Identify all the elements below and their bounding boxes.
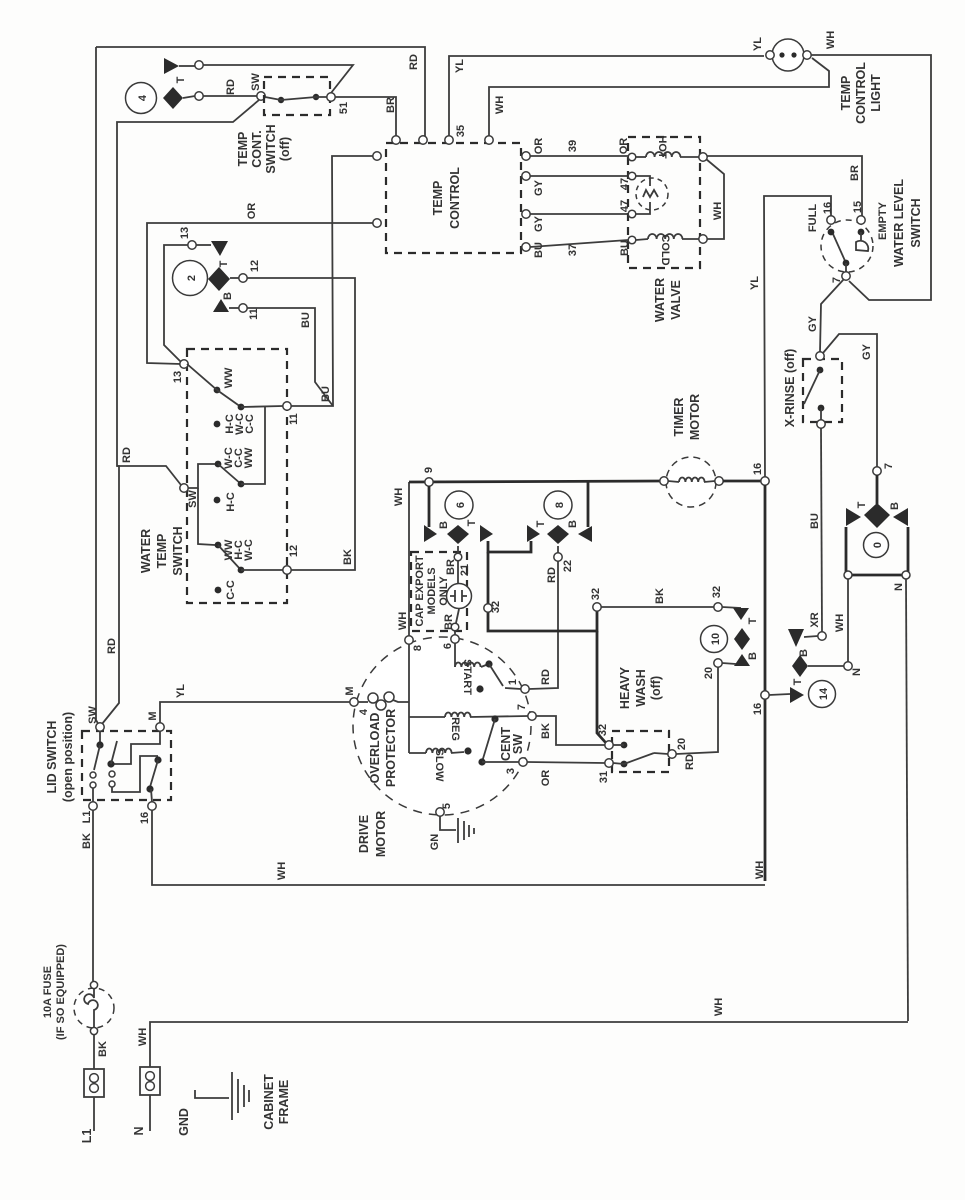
svg-text:14: 14 [818, 687, 830, 700]
node terminal 32 left [484, 601, 502, 613]
svg-text:TIMER: TIMER [672, 398, 686, 437]
label CAP EXPORT MODELS ONLY [414, 555, 450, 627]
wire BK bus 32 to heavy wash area [601, 588, 714, 607]
connector diamond (block 0) [856, 501, 901, 528]
connector half (13) [196, 241, 228, 256]
svg-text:37: 37 [567, 244, 579, 256]
svg-text:MOTOR: MOTOR [688, 394, 702, 440]
svg-text:2: 2 [186, 275, 198, 281]
label WATER TEMP SWITCH [139, 526, 185, 575]
connector diamond (item 10) [734, 628, 750, 650]
label WATER VALVE [653, 278, 683, 322]
node YL label at lamp [752, 37, 764, 51]
wire left border BK (L1 feed) [96, 47, 100, 727]
svg-text:31: 31 [598, 771, 610, 783]
svg-text:T: T [175, 76, 187, 83]
ground GND [177, 1072, 249, 1136]
svg-text:CONT.: CONT. [250, 130, 264, 168]
svg-text:BK: BK [81, 833, 93, 849]
svg-text:BR: BR [445, 559, 457, 575]
svg-text:22: 22 [562, 560, 574, 572]
svg-text:(IF SO EQUIPPED): (IF SO EQUIPPED) [55, 944, 67, 1040]
coil SLOW [409, 747, 472, 782]
svg-text:VALVE: VALVE [669, 280, 683, 320]
wire OR temp control to water valve [530, 155, 628, 157]
node terminal SW water temp switch [180, 484, 199, 508]
node terminal BR on temp control top [392, 136, 400, 144]
svg-text:WH: WH [393, 488, 405, 506]
connector half T (item 10) [722, 607, 759, 624]
switch contact WW [187, 364, 244, 410]
node terminal 12 (item 2) [230, 260, 261, 282]
node terminal of diamond 4 [183, 92, 203, 100]
node YL label [454, 59, 466, 73]
connector half left (block 0) [846, 508, 861, 526]
node terminal 32 heavy wash [597, 724, 613, 749]
svg-text:RD: RD [546, 567, 558, 583]
svg-text:W-C: W-C [243, 539, 255, 561]
svg-text:PROTECTOR: PROTECTOR [384, 709, 398, 787]
node terminal OR temp control right [522, 152, 530, 160]
node WH label at lamp [825, 31, 837, 49]
node terminal 6 drive motor [442, 635, 459, 649]
svg-text:16: 16 [752, 463, 764, 475]
svg-text:GY: GY [533, 215, 545, 232]
svg-text:11: 11 [288, 413, 300, 425]
overload protector squiggle [358, 692, 409, 710]
node terminal 31 heavy wash [598, 759, 613, 783]
svg-text:FRAME: FRAME [277, 1080, 291, 1124]
svg-text:RD: RD [408, 54, 420, 70]
node terminal 32 mid [590, 588, 602, 611]
wire contact3 to terminal 12 [241, 569, 283, 571]
svg-text:B: B [438, 521, 450, 529]
svg-text:T: T [535, 520, 547, 527]
svg-text:T: T [792, 678, 804, 685]
svg-text:WH: WH [276, 862, 288, 880]
node terminal SW of temp cont switch [257, 92, 265, 100]
svg-text:6: 6 [455, 502, 467, 508]
svg-text:5: 5 [441, 803, 453, 809]
node RD label [225, 79, 237, 95]
svg-text:GN: GN [429, 834, 441, 851]
node terminal T of item 4 [195, 61, 203, 69]
node terminal 15 empty [852, 201, 865, 224]
switch contact W-C C-C WW [215, 447, 255, 487]
node terminal 1 drive motor [507, 669, 552, 693]
connector half B (item 14) [788, 629, 818, 657]
label TEMP CONT. SWITCH (off) [236, 124, 292, 173]
connector half B (item 10) [722, 652, 759, 666]
svg-text:YL: YL [454, 59, 466, 73]
wire YL lid M to drive motor M [160, 684, 350, 723]
svg-text:WH: WH [834, 614, 846, 632]
node terminal valve HOT right [699, 153, 707, 161]
connector diamond (item 2) [208, 267, 230, 291]
svg-text:GY: GY [807, 315, 819, 332]
svg-text:CABINET: CABINET [262, 1074, 276, 1130]
label TEMP CONTROL LIGHT [839, 62, 883, 124]
svg-text:10A FUSE: 10A FUSE [42, 966, 54, 1018]
svg-text:15: 15 [852, 201, 864, 213]
svg-text:(off): (off) [278, 137, 292, 161]
svg-text:47: 47 [619, 200, 631, 212]
switch water level contacts [828, 229, 869, 272]
connector diamond T (item 6) [447, 519, 478, 553]
node terminal M/4 drive motor [344, 686, 370, 715]
svg-text:YL: YL [752, 37, 764, 51]
node RD label mid-left [121, 447, 133, 463]
wire 16 vertical down [764, 485, 767, 881]
switch lid pole 1 [90, 731, 104, 802]
lamp TEMP CONTROL LIGHT [766, 39, 811, 71]
connector diamond (item 4) [163, 87, 183, 109]
svg-text:6: 6 [442, 643, 454, 649]
svg-text:(open position): (open position) [61, 712, 75, 802]
svg-text:39: 39 [567, 140, 579, 152]
svg-text:X-RINSE (off): X-RINSE (off) [783, 349, 797, 427]
connector half T (top of item 4) [164, 58, 195, 74]
svg-text:SW: SW [250, 73, 262, 91]
svg-text:REG: REG [449, 717, 461, 741]
svg-text:BK: BK [97, 1041, 109, 1057]
coil START [455, 643, 486, 695]
label WATER LEVEL SWITCH [892, 179, 923, 267]
svg-text:GY: GY [861, 343, 873, 360]
svg-text:CONTROL: CONTROL [448, 167, 462, 229]
svg-text:1: 1 [507, 679, 519, 685]
switch TEMP CONT SWITCH dashed box [264, 77, 330, 115]
svg-text:BU: BU [809, 513, 821, 529]
node terminal M lid switch [147, 711, 164, 731]
svg-text:H-C: H-C [225, 492, 237, 512]
svg-text:32: 32 [711, 586, 723, 598]
coil REG [409, 713, 528, 741]
svg-text:C-C: C-C [244, 414, 256, 434]
wire BK motor 7 to heavy wash 32 [536, 716, 605, 745]
svg-text:TEMP: TEMP [236, 132, 250, 167]
node terminal 20 (item 10) [703, 659, 722, 679]
node T label (item 4) [175, 76, 187, 83]
node dot H-C [214, 492, 237, 512]
label TIMER MOTOR [672, 394, 702, 440]
coil HOT [636, 135, 699, 159]
svg-text:HOT: HOT [656, 135, 668, 159]
wire BK 12 to water temp switch 12 [247, 278, 355, 570]
switch heavy wash [613, 742, 668, 768]
node terminal temp control left 1 [373, 152, 381, 160]
connector half T (item 8) [527, 520, 547, 542]
node RD label top [408, 54, 420, 70]
svg-text:MOTOR: MOTOR [374, 811, 388, 857]
switch contact WW H-C W-C [215, 539, 255, 573]
svg-text:TEMP: TEMP [431, 181, 445, 216]
svg-text:0: 0 [872, 542, 884, 548]
svg-text:32: 32 [597, 724, 609, 736]
wire WH motor 8 up to bus [408, 482, 410, 636]
svg-text:WH: WH [397, 612, 409, 630]
svg-text:EMPTY: EMPTY [877, 201, 889, 240]
wire diamond 14 to N [808, 665, 844, 667]
component LID SWITCH dashed box [82, 731, 171, 800]
component DRIVE MOTOR dashed circle [353, 637, 531, 815]
svg-text:35: 35 [455, 125, 467, 137]
node terminal N (item 14) [844, 662, 863, 676]
wire temp control left 1 to water temp switch 11 [291, 156, 373, 406]
svg-text:LID SWITCH: LID SWITCH [45, 721, 59, 794]
svg-text:16: 16 [822, 202, 834, 214]
node dot H-C W-C C-C [214, 413, 256, 435]
component WATER LEVEL SWITCH dashed circle [821, 220, 873, 272]
node terminal 5 drive motor [436, 803, 453, 816]
svg-text:BU: BU [300, 312, 312, 328]
node terminal XR [809, 612, 826, 640]
node terminal RD on temp control top [419, 136, 427, 144]
wire YL water level 16 to timer junction [749, 196, 831, 481]
svg-text:L1: L1 [81, 811, 93, 824]
wire 20 down to heavy wash [676, 667, 718, 754]
svg-text:32: 32 [590, 588, 602, 600]
item circle 8 [544, 491, 572, 519]
svg-text:9: 9 [423, 467, 435, 473]
wire BK lid L1 to fuse [81, 810, 93, 981]
svg-text:13: 13 [172, 371, 184, 383]
connector diamond (item 14) [792, 655, 808, 677]
terminal block N [132, 1067, 160, 1136]
component WATER VALVE dashed box [628, 137, 700, 268]
wire motor internal bus [408, 644, 410, 753]
wire thick item8 left link [488, 541, 531, 552]
svg-text:WH: WH [713, 998, 725, 1016]
component CAP EXPORT MODELS ONLY dashed box [411, 552, 467, 631]
node terminal 11 (item 2) [239, 304, 260, 320]
node terminal 7 block 0 [873, 463, 895, 475]
component TEMP CONTROL dashed box [386, 143, 521, 253]
node terminal 16 full [822, 202, 835, 224]
svg-text:32: 32 [490, 601, 502, 613]
wire from T terminal to switch terminal 51 [203, 65, 353, 93]
wire 9 down to connector B of item 6 [428, 486, 431, 527]
svg-text:BK: BK [540, 723, 552, 739]
svg-text:DRIVE: DRIVE [357, 815, 371, 853]
wire RD branch down to lid switch [102, 466, 119, 724]
svg-text:RD: RD [121, 447, 133, 463]
svg-text:51: 51 [338, 102, 350, 114]
node terminal 51 [327, 93, 350, 114]
wire BU x-rinse to XR [809, 428, 822, 632]
node B label (item 2) [222, 292, 234, 300]
svg-text:WATER LEVEL: WATER LEVEL [892, 179, 906, 267]
svg-text:T: T [747, 617, 759, 624]
svg-text:21: 21 [459, 564, 471, 576]
connector diamond (item 8) [547, 520, 579, 553]
wire top border RD [96, 47, 425, 139]
switch start contact [476, 660, 521, 692]
svg-text:N: N [893, 583, 905, 591]
wire 7 to diamond block 0 [876, 475, 879, 504]
svg-text:RD: RD [684, 754, 696, 770]
wire RD from diamond4 to SW [203, 95, 257, 97]
node terminal x-rinse bottom [817, 420, 825, 428]
wire YL from temp control to lamp [449, 56, 764, 136]
node T label (item 2) [218, 260, 230, 267]
label HEAVY WASH (off) [618, 666, 663, 709]
node RD label lower-left [106, 638, 118, 654]
svg-text:BK: BK [654, 588, 666, 604]
svg-text:12: 12 [249, 260, 261, 272]
svg-text:LIGHT: LIGHT [869, 74, 883, 112]
node terminal 21 capacitor [445, 553, 471, 583]
node terminal 32 right [711, 586, 723, 611]
label FULL EMPTY [807, 201, 889, 240]
svg-text:TEMP: TEMP [839, 76, 853, 111]
svg-text:8: 8 [412, 645, 424, 651]
label OVERLOAD PROTECTOR [368, 709, 398, 787]
wire OR temp control left to water temp switch 13 [147, 223, 373, 364]
node terminal block0 bottom-right [893, 571, 910, 591]
svg-text:WH: WH [137, 1028, 149, 1046]
svg-text:B: B [222, 292, 234, 300]
svg-text:T: T [856, 501, 868, 508]
node terminal WH on temp control top [485, 136, 493, 144]
wire WH from temp control to lamp right [489, 58, 829, 136]
connector half T (item 14) [790, 678, 804, 703]
label 10A FUSE (IF SO EQUIPPED) [42, 944, 67, 1040]
node terminal 20 heavy wash [668, 738, 696, 770]
svg-text:WATER: WATER [139, 529, 153, 573]
wire timer to 16 junction [723, 480, 761, 483]
wire BK fuse to L1 terminal box [94, 1035, 109, 1069]
node BR label [385, 97, 397, 113]
wire GY 47 upper [522, 172, 631, 196]
node terminal L1 lid switch [81, 802, 97, 824]
svg-text:MODELS: MODELS [426, 567, 438, 614]
svg-text:SW: SW [511, 734, 525, 754]
svg-text:BK: BK [342, 549, 354, 565]
svg-text:CAP EXPORT: CAP EXPORT [414, 555, 426, 627]
ground at motor 5 [429, 816, 474, 850]
wire WH N to block 0 [834, 579, 848, 662]
svg-text:N: N [851, 668, 863, 676]
svg-text:COLD: COLD [659, 234, 671, 265]
svg-text:YL: YL [749, 276, 761, 290]
item circle 0 [864, 533, 889, 558]
svg-text:CONTROL: CONTROL [854, 62, 868, 124]
node terminal 16 stub to item 14 [752, 691, 790, 715]
svg-text:TEMP: TEMP [155, 534, 169, 569]
svg-text:FULL: FULL [807, 204, 819, 232]
svg-text:C-C: C-C [225, 580, 237, 600]
svg-text:7: 7 [883, 463, 895, 469]
svg-text:SWITCH: SWITCH [264, 124, 278, 173]
wire BU 37 [522, 240, 631, 258]
wire OR motor 3 to heavy wash 31 [527, 762, 605, 763]
svg-text:WATER: WATER [653, 278, 667, 322]
terminal block L1 [80, 1069, 104, 1143]
component HEAVY WASH dashed box [612, 731, 669, 772]
svg-text:8: 8 [554, 502, 566, 508]
wire WH block0 down right side [906, 579, 908, 1021]
svg-text:XR: XR [809, 612, 821, 627]
svg-text:OVERLOAD: OVERLOAD [368, 713, 382, 784]
node terminal YL (35) on temp control top [445, 125, 467, 144]
svg-text:(off): (off) [649, 676, 663, 700]
svg-text:OR: OR [246, 203, 258, 220]
svg-text:SLOW: SLOW [433, 749, 445, 783]
wire SW internal link [188, 464, 215, 545]
svg-text:BR: BR [385, 97, 397, 113]
node terminal 7 water level [831, 272, 850, 283]
svg-text:BR: BR [849, 165, 861, 181]
switch x-rinse blade [804, 367, 824, 420]
svg-text:HEAVY: HEAVY [618, 666, 632, 709]
node dot C-C [215, 580, 237, 600]
node terminal 22 [546, 553, 574, 583]
wire WH bus to timer [409, 481, 660, 482]
svg-text:20: 20 [703, 667, 715, 679]
connector half left (item 8) [480, 525, 493, 542]
connector half right (block 0) [893, 508, 908, 526]
svg-text:WW: WW [243, 447, 255, 468]
svg-text:SW: SW [87, 706, 99, 724]
svg-text:WH: WH [754, 861, 766, 879]
svg-text:OR: OR [540, 770, 552, 787]
wire WH valve common [706, 159, 724, 239]
label TEMP CONTROL [431, 167, 462, 229]
wire capacitor to motor 6 [443, 609, 459, 636]
svg-text:10: 10 [710, 633, 722, 645]
svg-text:B: B [567, 520, 579, 528]
item block 0 [846, 527, 908, 575]
svg-text:YL: YL [175, 684, 187, 698]
node SW label [250, 73, 262, 91]
wire WH right border from lamp to water level switch [811, 55, 931, 300]
svg-text:L1: L1 [80, 1129, 94, 1144]
item circle 6 [445, 491, 473, 519]
wire contact WW to terminal 11 [241, 406, 283, 407]
node terminal 11 water temp switch [283, 402, 300, 425]
switch blade temp cont switch [265, 94, 327, 103]
svg-text:RD: RD [106, 638, 118, 654]
node OR label mid [246, 203, 258, 220]
node terminal 7 drive motor [516, 704, 552, 739]
item circle 10 [701, 626, 728, 653]
node terminal valve COLD right [699, 235, 707, 243]
label X-RINSE (off) [783, 349, 797, 427]
node terminal x-rinse top [816, 352, 824, 360]
node terminal 12 water temp switch [283, 545, 300, 574]
svg-text:B: B [747, 652, 759, 660]
svg-text:3: 3 [505, 768, 517, 774]
wire GY x-rinse to terminal 7 of block 0 [823, 334, 877, 467]
item circle 14 [809, 681, 836, 708]
wire GY 47 lower [522, 200, 631, 232]
item circle 4 [126, 83, 157, 114]
node terminal 13 (item 2) [179, 227, 196, 249]
connector half right (item 8) [578, 482, 592, 542]
svg-text:16: 16 [752, 703, 764, 715]
switch lid pole 2 [107, 731, 161, 802]
wire 13 down to water temp switch [164, 245, 188, 362]
wire contact2 up to 11 line [241, 407, 265, 484]
wire thick 32 bus [488, 552, 597, 631]
component TIMER MOTOR dashed circle [666, 457, 716, 507]
wire WH from N up and right along bottom [137, 998, 908, 1067]
node terminal 9 [393, 467, 435, 506]
svg-text:20: 20 [676, 738, 688, 750]
svg-text:START: START [461, 659, 473, 695]
svg-text:M: M [344, 686, 356, 695]
